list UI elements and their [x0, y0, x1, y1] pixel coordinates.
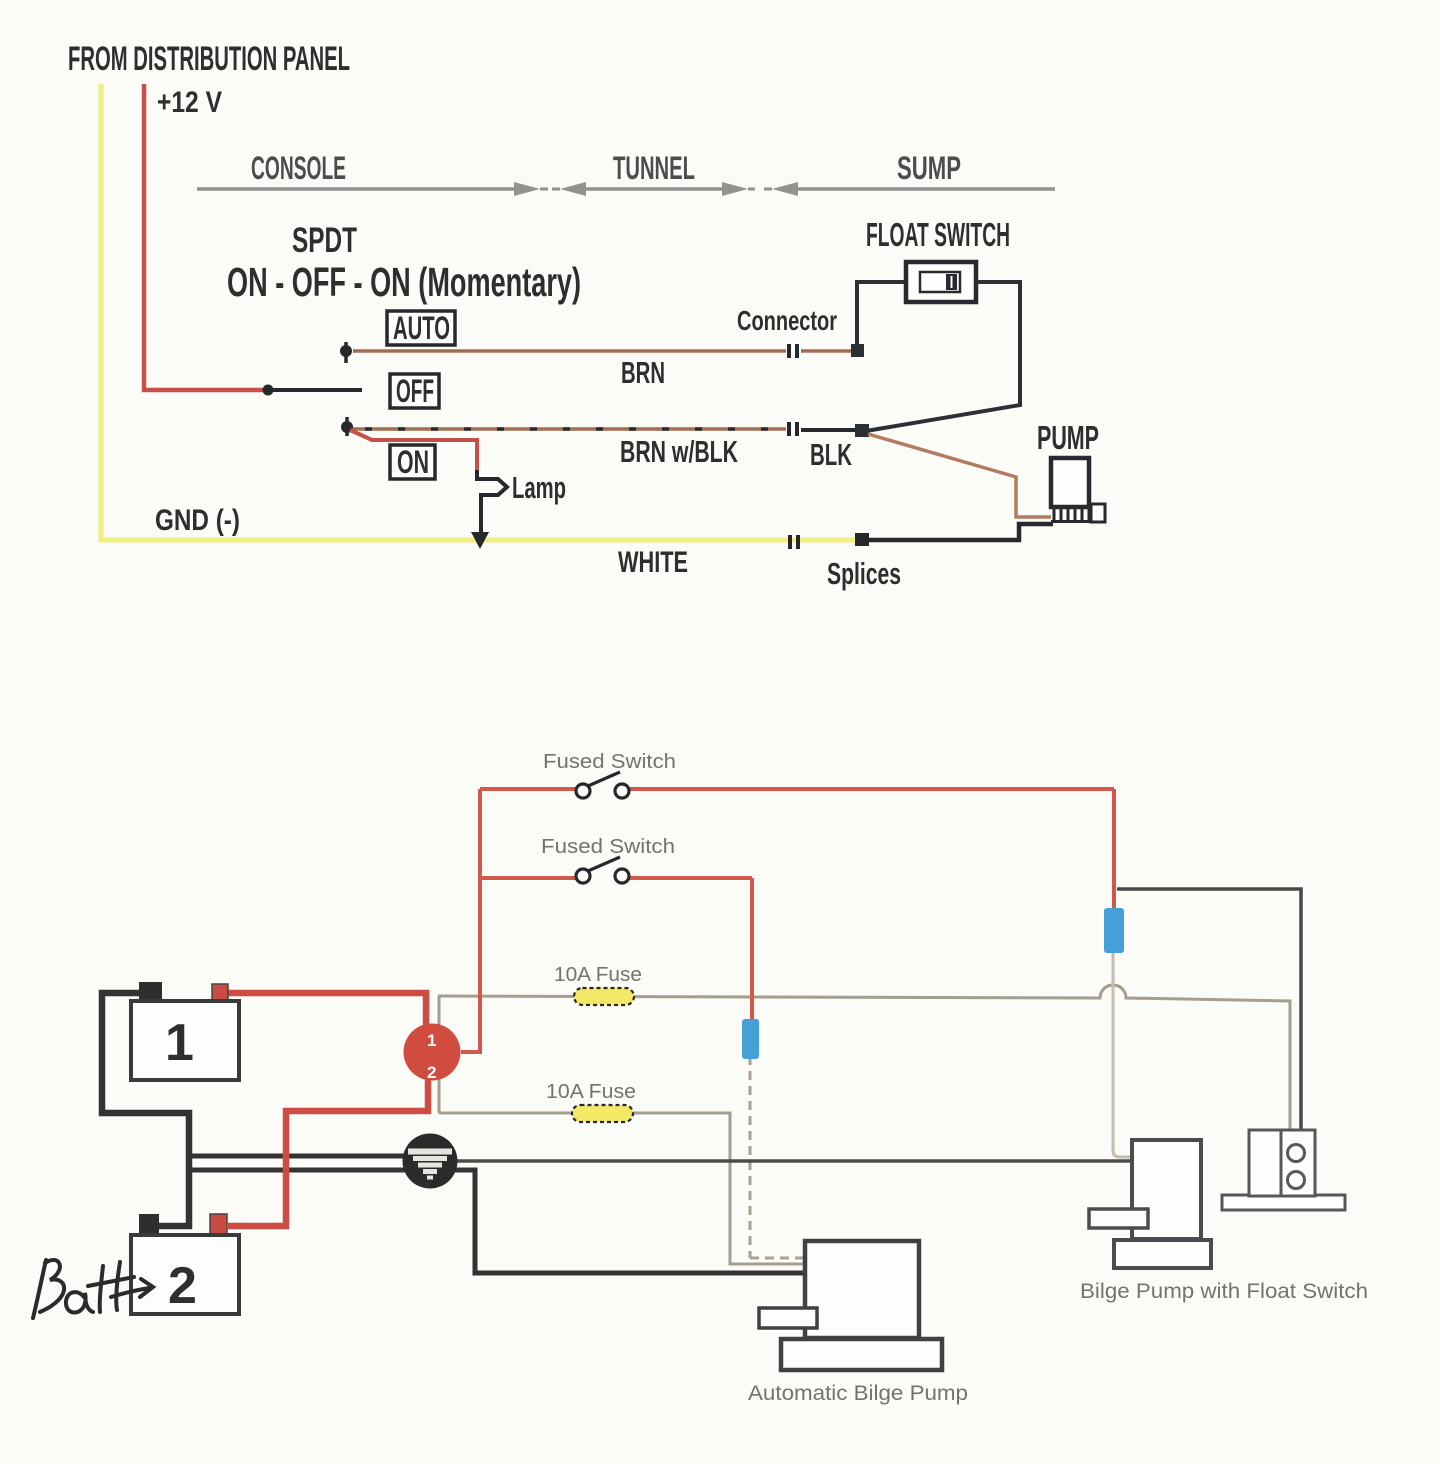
lamp symbol: [477, 470, 507, 532]
svg-text:CONSOLE: CONSOLE: [251, 150, 346, 186]
switch contact ON dot: [342, 417, 353, 436]
svg-text:2: 2: [168, 1257, 197, 1315]
automatic bilge pump symbol: [759, 1241, 942, 1370]
wire black to float switch: [1117, 889, 1301, 1130]
svg-text:Automatic Bilge Pump: Automatic Bilge Pump: [748, 1382, 968, 1405]
wire BRN w/BLK brown base: [353, 427, 786, 431]
label box ON: [390, 445, 435, 479]
svg-text:BRN: BRN: [621, 355, 665, 390]
wire red fused switch 2: [480, 878, 752, 1019]
wire BRN brown: [353, 349, 786, 353]
wire black to ground circle: [189, 1154, 404, 1159]
wire black battery1 negative: [102, 993, 189, 1226]
wire up to float switch: [857, 282, 905, 346]
fuse 10A capsule 1: [574, 988, 634, 1005]
connector bars on BRN w/BLK: [789, 422, 797, 436]
wire red battery1 positive: [228, 993, 426, 1026]
svg-text:Bilge Pump with Float Switch: Bilge Pump with Float Switch: [1080, 1280, 1368, 1303]
wire gray fuse2 line: [439, 1113, 804, 1264]
svg-text:WHITE: WHITE: [618, 546, 688, 579]
switch common pole wire: [268, 388, 362, 392]
splice square on white wire: [855, 533, 869, 546]
svg-text:+12 V: +12 V: [157, 86, 222, 119]
handwritten Batt arrow: [33, 1260, 153, 1318]
float switch symbol: [906, 262, 976, 302]
zone header line CONSOLE segment: [197, 182, 1055, 196]
wire BLK segment: [801, 428, 856, 432]
svg-text:TUNNEL: TUNNEL: [613, 150, 695, 186]
label box AUTO: [387, 311, 455, 345]
battery 2 box: [131, 1214, 239, 1315]
bilge pump with float switch symbol: [1089, 1140, 1211, 1268]
wire gray vertical battery-switch link: [438, 996, 441, 1113]
svg-text:Fused Switch: Fused Switch: [541, 836, 675, 858]
svg-text:FROM DISTRIBUTION PANEL: FROM DISTRIBUTION PANEL: [68, 40, 350, 78]
connector bars on WHITE wire: [790, 535, 798, 549]
svg-text:2: 2: [427, 1063, 436, 1082]
blue connector 1: [1104, 908, 1124, 953]
wire float switch right down: [866, 282, 1020, 431]
battery selector switch red circle: [404, 1024, 461, 1083]
svg-text:OFF: OFF: [396, 373, 434, 409]
wire GND yellow vertical+horizontal: [101, 84, 855, 540]
blue connector 2: [742, 1019, 759, 1059]
svg-text:Fused Switch: Fused Switch: [543, 751, 676, 773]
fuse 10A capsule 2: [572, 1105, 633, 1122]
wire tan below blue connector 1: [1113, 950, 1132, 1157]
svg-text:SPDT: SPDT: [292, 221, 357, 260]
wire red fused switch 1: [480, 789, 1114, 908]
junction square BLK node: [855, 424, 869, 437]
wire red ON to lamp: [350, 430, 477, 472]
wire white-to-pump black: [868, 524, 1053, 540]
ground bus black circle: [403, 1134, 458, 1189]
wire +12V red feed: [144, 84, 268, 390]
svg-text:10A Fuse: 10A Fuse: [554, 964, 642, 986]
fused switch 2 symbol: [576, 857, 629, 883]
svg-text:PUMP: PUMP: [1037, 419, 1099, 456]
svg-text:Lamp: Lamp: [512, 470, 566, 505]
svg-text:Connector: Connector: [737, 305, 837, 336]
pump symbol: [1051, 458, 1105, 522]
zone header line SUMP segment: [764, 188, 772, 191]
wire dashed below blue connector 2: [750, 1056, 804, 1258]
battery 1 box: [131, 982, 239, 1080]
wire gray fuse1 line with hop: [438, 985, 1290, 1130]
svg-text:10A Fuse: 10A Fuse: [546, 1081, 636, 1103]
connector bars on BRN: [789, 344, 797, 358]
svg-text:BRN w/BLK: BRN w/BLK: [620, 434, 738, 469]
svg-text:FLOAT SWITCH: FLOAT SWITCH: [866, 216, 1010, 253]
svg-text:GND (-): GND (-): [155, 504, 240, 537]
svg-text:SUMP: SUMP: [897, 150, 961, 186]
svg-text:1: 1: [165, 1014, 194, 1072]
junction square BRN to float switch: [851, 344, 864, 357]
switch contact AUTO dot: [341, 342, 352, 363]
wire black under circle to automatic pump: [189, 1170, 805, 1273]
junction dot on OFF pole: [263, 385, 274, 396]
svg-text:ON - OFF - ON (Momentary): ON - OFF - ON (Momentary): [227, 259, 581, 305]
svg-text:Splices: Splices: [827, 556, 901, 591]
wire red switch feed vertical: [461, 789, 480, 1052]
wire brown to pump: [868, 434, 1051, 517]
svg-text:1: 1: [427, 1031, 436, 1050]
black dashes on BRN w/BLK: [365, 427, 786, 431]
float switch symbol right: [1222, 1130, 1345, 1210]
wire ground circle to bilge pump: [456, 1159, 1133, 1163]
svg-text:BLK: BLK: [810, 437, 852, 472]
fused switch 1 symbol: [576, 772, 629, 798]
label box OFF: [390, 374, 439, 408]
zone header line TUNNEL segment: [552, 188, 560, 191]
wire red battery2 positive: [228, 1078, 428, 1226]
svg-text:AUTO: AUTO: [393, 310, 450, 346]
svg-text:ON: ON: [397, 444, 429, 480]
